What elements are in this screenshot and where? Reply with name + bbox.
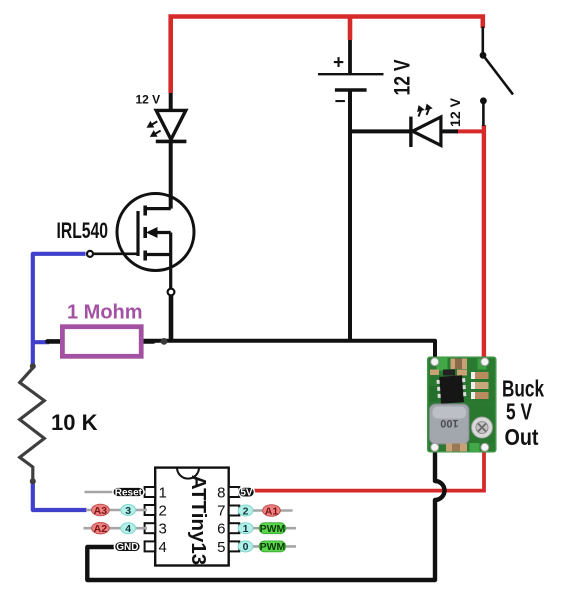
pcb <box>427 357 497 453</box>
battery B1 + plate <box>318 73 384 75</box>
svg-text:A3: A3 <box>94 505 108 517</box>
label A2 <box>92 523 110 534</box>
LED D1 emission arrows <box>147 121 161 137</box>
wire: red buck 5V out down and left to IC pin8 <box>253 446 484 491</box>
svg-text:0: 0 <box>243 541 249 553</box>
svg-text:+: + <box>333 53 344 74</box>
MOSFET gate line <box>136 211 139 256</box>
MOSFET source lead down <box>169 255 172 289</box>
svg-text:2: 2 <box>159 503 167 520</box>
svg-text:GND: GND <box>116 542 138 553</box>
svg-text:12 V: 12 V <box>136 93 161 107</box>
right smd column <box>475 372 489 379</box>
black chip <box>436 375 466 404</box>
MOSFET channel ticks <box>143 206 147 261</box>
pin 1 square <box>145 487 156 497</box>
pin 5 square <box>229 541 240 551</box>
IC U1 ATTiny13 body <box>155 468 229 566</box>
svg-text:4: 4 <box>159 539 167 556</box>
svg-text:6: 6 <box>217 521 225 538</box>
wire: switch bottom stub black <box>482 102 485 126</box>
svg-text:ATTiny13: ATTiny13 <box>187 475 210 565</box>
resistor R1 1 Mohm body <box>62 327 141 357</box>
wire: gray pin6 row <box>238 527 296 530</box>
green block top right <box>478 359 487 370</box>
MOSFET source terminal circle <box>168 289 175 296</box>
label A3 <box>92 504 110 515</box>
bottom green connector <box>470 443 480 452</box>
svg-text:5 V: 5 V <box>506 399 532 425</box>
label Reset pill <box>113 487 144 497</box>
LED D2 triangle <box>413 117 441 145</box>
wire: switch top stub black <box>481 27 484 54</box>
label PWM pin6 <box>259 523 285 534</box>
wire: blue from 10K bottom to IC pin2 (A3) <box>33 480 87 510</box>
tan cap top <box>451 359 468 370</box>
wire: blue branch to 1 Mohm left lead <box>33 340 49 344</box>
wire: main black horizontal node to buck IN- <box>141 341 435 359</box>
LED D2 emission arrows <box>417 104 433 117</box>
wire: black battery - down to main node <box>348 90 352 342</box>
svg-text:1 Mohm: 1 Mohm <box>67 302 143 324</box>
pin 2 square <box>145 505 156 515</box>
resistor R1 lead left <box>48 339 63 344</box>
resistor R2 10K zigzag <box>20 364 45 482</box>
svg-text:12 V: 12 V <box>447 97 463 127</box>
buck converter module U2 <box>427 357 497 453</box>
svg-text:A2: A2 <box>94 523 108 535</box>
wire: red segment LED2 anode to red vertical <box>456 129 483 133</box>
LED D1 triangle <box>156 110 186 139</box>
pin 8 square <box>229 487 240 497</box>
resistor R1 lead right <box>141 339 154 344</box>
label 5V pill <box>239 487 255 497</box>
MOSFET body-source post <box>169 233 172 255</box>
svg-text:PWM: PWM <box>260 541 286 553</box>
svg-text:7: 7 <box>217 503 225 520</box>
IC notch <box>177 468 199 479</box>
MOSFET drain bar <box>145 207 171 210</box>
MOSFET Q1 IRL540 body circle <box>117 194 194 271</box>
svg-text:3: 3 <box>125 505 131 517</box>
wire: black MOSFET source down to main node <box>169 295 174 342</box>
svg-text:5: 5 <box>217 539 225 556</box>
LED D1 cathode bar <box>156 140 187 144</box>
svg-text:12 V: 12 V <box>390 59 415 95</box>
label 1 <box>238 523 253 534</box>
battery B1 - plate <box>335 88 367 92</box>
label GND pill <box>114 541 140 551</box>
label 4 <box>121 523 136 534</box>
label 0 <box>238 541 253 552</box>
wire: gray pin5 row <box>238 545 296 548</box>
wire: +12V red top rail from LED1 up, across to switch <box>171 17 483 94</box>
svg-text:4: 4 <box>125 523 131 535</box>
label PWM pin5 <box>259 541 285 552</box>
wire: black buck OUT- down (hop over red) along bottom to GND pin4 <box>87 446 444 580</box>
svg-text:100: 100 <box>440 417 458 429</box>
svg-text:IRL540: IRL540 <box>57 218 109 243</box>
svg-text:PWM: PWM <box>260 523 286 535</box>
MOSFET gate wire black <box>93 253 138 256</box>
inductor <box>430 404 470 444</box>
wire: gray A3 row <box>86 509 147 512</box>
svg-text:A1: A1 <box>265 505 279 517</box>
switch terminal dot bottom <box>480 97 487 104</box>
potentiometer <box>472 417 493 438</box>
LED D2 cathode bar <box>409 117 412 147</box>
svg-text:Reset: Reset <box>115 487 143 498</box>
pin 3 square <box>145 523 156 533</box>
junction node: blue to 10K top <box>30 363 36 369</box>
wire: black stub battery + plate <box>348 40 352 74</box>
switch terminal dot top <box>480 52 487 59</box>
label 2 <box>238 505 253 516</box>
wire: red stub from rail down to battery + <box>348 15 353 41</box>
wire: black stub LED2 anode side <box>441 129 458 133</box>
MOSFET gate terminal circle <box>87 251 93 257</box>
svg-text:1: 1 <box>243 523 249 535</box>
label 3 <box>121 505 136 516</box>
wire: red vertical from switch bottom down to buck IN+ <box>482 125 486 362</box>
svg-text:10 K: 10 K <box>51 410 98 435</box>
svg-text:Out: Out <box>505 424 539 450</box>
svg-text:1: 1 <box>159 485 167 502</box>
wire: gray Reset row <box>85 491 147 494</box>
pin 4 square <box>145 541 156 551</box>
MOSFET source bar <box>145 253 171 256</box>
wire: black LED1 top lead <box>169 93 173 111</box>
pin 7 square <box>229 506 240 516</box>
svg-text:−: − <box>335 92 346 113</box>
junction node: resistor/MOSFET/battery <box>161 338 168 345</box>
pin 6 square <box>229 523 240 533</box>
MOSFET body arrow bar <box>154 231 171 234</box>
wire: blue gate wire from MOSFET gate left and down <box>33 254 86 366</box>
corner pads <box>431 358 439 366</box>
small parts row <box>430 370 439 376</box>
wire: gray A2 row <box>84 527 148 530</box>
svg-text:2: 2 <box>243 505 249 517</box>
wire: black from battery line to LED2 cathode <box>348 129 410 133</box>
junction node: 10K bottom <box>30 478 36 484</box>
switch lever (open) <box>484 57 513 95</box>
svg-text:5V: 5V <box>240 488 253 499</box>
wire: black LED1 cathode down into MOSFET drain <box>169 142 173 209</box>
svg-text:8: 8 <box>217 485 225 502</box>
svg-text:3: 3 <box>159 521 167 538</box>
label A1 <box>263 505 281 516</box>
bottom tan caps <box>446 444 467 452</box>
wire: gray pin7 row <box>238 509 293 512</box>
connector green top-left <box>437 358 448 371</box>
